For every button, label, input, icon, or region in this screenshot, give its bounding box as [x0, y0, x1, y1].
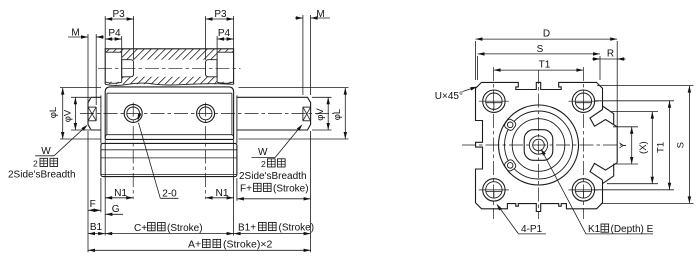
svg-text:W: W: [258, 147, 268, 158]
central flange circle 2: [505, 111, 573, 179]
right rod wrench-flat cross: [303, 107, 311, 121]
left rod outline: [88, 97, 101, 130]
dimension phiV right: [312, 96, 332, 98]
dimension Y: [613, 126, 638, 128]
svg-text:B1: B1: [90, 222, 103, 233]
svg-text:G: G: [112, 204, 120, 215]
dimension X: [610, 111, 658, 113]
dimension P3 left: [104, 16, 106, 49]
svg-text:Y: Y: [618, 142, 629, 149]
svg-text:φL: φL: [48, 107, 59, 118]
right counterbore outline: [217, 52, 234, 82]
svg-text:T1: T1: [656, 142, 667, 153]
port hole 2 (2-0): [197, 104, 215, 122]
dimension A total: [88, 249, 311, 251]
svg-text:2: 2: [261, 159, 266, 169]
svg-text:M: M: [316, 9, 324, 20]
mounting bolt hole top-left: [483, 90, 505, 112]
central flange circle 3: [512, 119, 565, 172]
dimension P4 left: [121, 36, 123, 52]
dimension M right: [302, 15, 304, 95]
port strip bottom edge (wavy break line): [105, 83, 233, 85]
label K1 depth E: [541, 149, 546, 156]
dimension phiL left: [60, 87, 101, 89]
right port insert: [206, 60, 218, 77]
right boss face line: [236, 95, 238, 143]
small pin pad and hole upper-left: [503, 118, 517, 132]
port hole 2 centerline: [205, 103, 207, 200]
svg-text:φL: φL: [332, 109, 343, 120]
svg-text:P3: P3: [112, 9, 125, 20]
top right corner claw notch: [590, 110, 617, 127]
port hole 1 centerline: [132, 103, 134, 200]
svg-text:N1: N1: [114, 188, 127, 199]
central flange circle outer: [499, 105, 579, 185]
svg-text:(Stroke): (Stroke): [273, 184, 309, 195]
svg-text:(Depth) E: (Depth) E: [611, 224, 654, 235]
dimension C plus stroke: [105, 233, 233, 235]
svg-text:P3: P3: [214, 9, 227, 20]
body lower edge line: [105, 135, 233, 139]
svg-text:2Side'sBreadth: 2Side'sBreadth: [8, 170, 76, 181]
end view body outline lower right, bottom and left edge: [476, 82, 603, 211]
svg-text:C+: C+: [134, 223, 147, 234]
dimension M left: [87, 34, 89, 105]
dimension D: [475, 41, 477, 80]
dimension S right: [597, 85, 694, 87]
plate inner line mid: [101, 157, 237, 159]
end view body outline top and upper right edge: [482, 82, 603, 109]
mounting bolt hole bottom-right: [572, 179, 594, 201]
svg-text:D: D: [543, 29, 550, 40]
dimension G left: [105, 213, 112, 216]
left boss face line: [100, 95, 102, 143]
label 4-P1: [497, 204, 502, 211]
svg-text:S: S: [537, 44, 544, 55]
dimension phiV left: [71, 96, 90, 98]
rod center hole K1: [533, 139, 545, 151]
central boss rounded square: [524, 130, 553, 161]
svg-text:4-P1: 4-P1: [521, 224, 543, 235]
bolt column centerline right: [582, 67, 584, 219]
label 2-0 port leader: [138, 114, 142, 121]
left rod flats: [88, 106, 96, 108]
left counterbore outline: [105, 52, 122, 82]
body top chamfer line: [107, 92, 232, 94]
bolt column centerline left: [493, 67, 495, 219]
dimension P3 right: [233, 16, 235, 49]
svg-text:F+: F+: [240, 184, 252, 195]
port strip outline: [105, 49, 233, 85]
svg-text:F: F: [90, 199, 96, 210]
port counterbore white blocks and bore: [105, 52, 122, 82]
dimension B1 plus stroke right: [234, 233, 311, 235]
svg-text:K1: K1: [588, 224, 601, 235]
body left chamfer line: [106, 93, 108, 135]
svg-text:P4: P4: [108, 28, 121, 39]
svg-text:B1+: B1+: [238, 223, 256, 234]
svg-text:M: M: [71, 27, 79, 38]
svg-text:R: R: [607, 49, 614, 60]
port strip centerline: [98, 67, 241, 69]
dimension T1 right: [595, 100, 674, 102]
right rod outline: [237, 97, 311, 130]
svg-text:2-0: 2-0: [162, 189, 177, 200]
dimension S top: [477, 56, 479, 80]
svg-text:2: 2: [33, 159, 38, 169]
svg-text:A+: A+: [188, 239, 201, 251]
end view horizontal centerline: [462, 144, 622, 146]
left rod wrench-flat cross: [88, 107, 96, 121]
mounting bolt hole bottom-left: [483, 179, 505, 201]
dimension T1 top: [494, 69, 584, 71]
svg-text:(Stroke): (Stroke): [167, 223, 203, 234]
body bottom edge: [105, 138, 233, 140]
svg-text:S: S: [676, 142, 687, 148]
right ear upper diagonal: [603, 106, 614, 125]
right ear outer face: [616, 127, 618, 163]
left port insert: [122, 60, 134, 77]
body right chamfer line: [231, 93, 233, 135]
svg-text:N1: N1: [215, 188, 228, 199]
svg-text:φV: φV: [62, 109, 73, 122]
hatch section of port strip: [65, 46, 280, 86]
lower plate outline: [101, 143, 237, 176]
svg-text:W: W: [41, 146, 51, 157]
dimension P4 right: [216, 36, 218, 52]
svg-text:2Side'sBreadth: 2Side'sBreadth: [239, 171, 307, 182]
svg-text:T1: T1: [539, 60, 551, 71]
dimension N1 right: [233, 140, 235, 236]
dimension F left: [87, 131, 89, 252]
rod thread circle: [529, 136, 547, 154]
plate inner line 2: [101, 173, 237, 175]
mounting bolt hole top-right: [572, 90, 594, 112]
small pin pad and hole lower-left: [503, 159, 517, 173]
dimension R: [600, 58, 617, 60]
svg-text:(X): (X): [638, 141, 649, 154]
svg-text:U×45°: U×45°: [435, 91, 463, 102]
svg-text:φV: φV: [315, 108, 326, 121]
dimension B1 left: [88, 233, 105, 235]
right rod flats: [303, 106, 311, 108]
dimension N1 left: [104, 140, 106, 236]
plate inner line 1: [101, 149, 237, 151]
body outline: [105, 87, 233, 139]
port hole 1 (2-0): [124, 104, 142, 122]
dimension F plus stroke right: [236, 178, 238, 201]
svg-text:(Stroke): (Stroke): [279, 223, 315, 234]
main axis centerline: [80, 113, 334, 115]
svg-text:(Stroke)×2: (Stroke)×2: [223, 239, 272, 251]
right ear lower diagonal: [603, 165, 614, 184]
end view vertical centerline: [538, 70, 540, 219]
svg-text:P4: P4: [218, 28, 231, 39]
dimension phiL right: [239, 87, 349, 89]
bottom right corner claw notch: [590, 163, 617, 180]
